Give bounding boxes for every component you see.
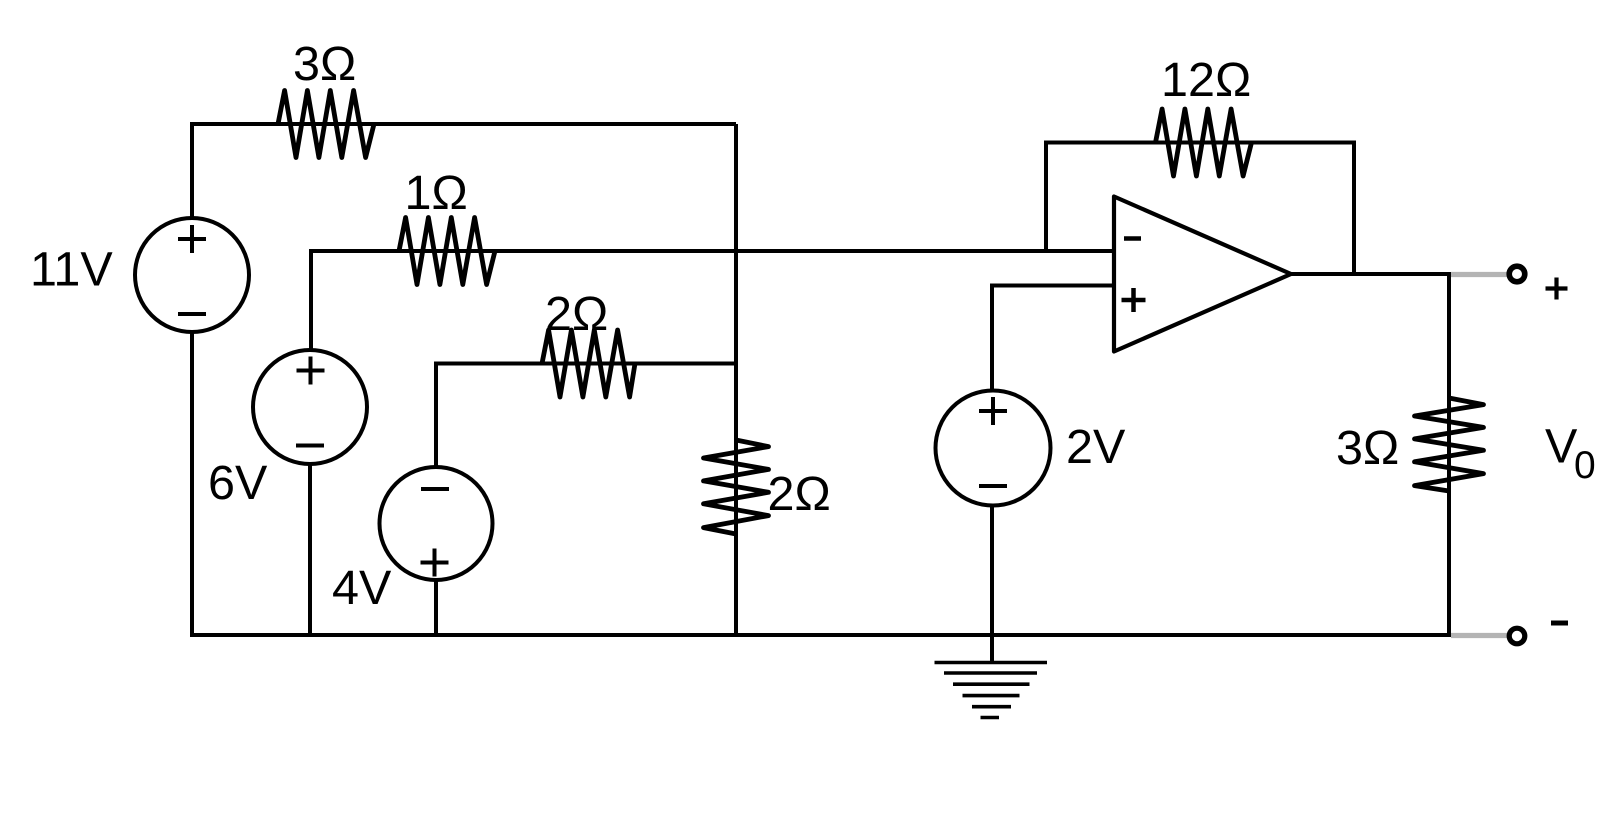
terminal + (open circle) bbox=[1509, 266, 1525, 282]
source V2 6V circle bbox=[253, 350, 367, 464]
V4 minus sign bbox=[979, 484, 1007, 488]
wire: top-left horizontal, 11V top node to vertical at x=736 bbox=[192, 124, 736, 218]
wire: non-inverting input to 2V source bbox=[992, 286, 1114, 392]
label + (output polarity) bbox=[1546, 278, 1568, 300]
wire: 4V bottom to ground rail bbox=[434, 579, 438, 635]
svg-text:3Ω: 3Ω bbox=[1336, 421, 1399, 475]
wire: bottom ground rail bbox=[190, 633, 1451, 637]
V1 minus sign bbox=[178, 312, 206, 316]
svg-text:2Ω: 2Ω bbox=[768, 467, 831, 521]
source V3 4V circle bbox=[380, 467, 493, 580]
svg-text:1Ω: 1Ω bbox=[405, 166, 468, 220]
V2 minus sign bbox=[296, 444, 324, 448]
wire: gray stub to - output terminal bbox=[1451, 633, 1507, 638]
terminal - (open circle) bbox=[1509, 628, 1525, 644]
svg-text:2V: 2V bbox=[1066, 420, 1126, 474]
wire: 11V bottom to ground rail bbox=[190, 332, 194, 635]
op-amp inverting input minus sign bbox=[1124, 236, 1141, 241]
op-amp non-inverting input plus sign bbox=[1122, 288, 1146, 312]
resistor R 2ohm vertical on middle bus bbox=[704, 440, 769, 534]
svg-text:11V: 11V bbox=[30, 243, 113, 297]
svg-text:3Ω: 3Ω bbox=[293, 37, 356, 91]
wire: gray stub to + output terminal bbox=[1451, 272, 1507, 277]
V4 plus sign bbox=[979, 397, 1007, 425]
source V4 2V circle bbox=[936, 391, 1051, 506]
wire: output node down through 3ohm to ground rail bbox=[1447, 274, 1451, 635]
resistor R 1ohm bbox=[399, 218, 495, 285]
resistor R 2ohm (horizontal) bbox=[542, 330, 635, 397]
wire: 6V bottom to ground rail bbox=[308, 464, 312, 635]
wire: 1ohm row, from 6V top node to op-amp inverting input bbox=[311, 251, 1114, 350]
svg-text:0: 0 bbox=[1574, 444, 1596, 487]
ground symbol stem bbox=[990, 635, 994, 662]
wire: middle vertical bus at x=736 bbox=[734, 124, 738, 635]
wire: op-amp feedback loop top bbox=[1046, 143, 1354, 275]
V2 plus sign bbox=[297, 357, 325, 385]
wire: op-amp output to output port bbox=[1291, 272, 1451, 276]
V3 minus sign (top) bbox=[421, 487, 449, 491]
svg-text:4V: 4V bbox=[332, 561, 392, 615]
op-amp U1 triangle bbox=[1114, 197, 1291, 352]
V1 plus sign bbox=[178, 225, 206, 253]
resistor R 3ohm (top left) bbox=[278, 91, 374, 158]
resistor R 12ohm (feedback) bbox=[1156, 109, 1252, 176]
V3 plus sign (bottom) bbox=[421, 549, 449, 577]
svg-text:2Ω: 2Ω bbox=[545, 287, 608, 341]
svg-text:6V: 6V bbox=[208, 456, 268, 510]
label - (output polarity) bbox=[1551, 621, 1568, 626]
source V1 11V circle bbox=[135, 218, 249, 332]
svg-text:12Ω: 12Ω bbox=[1161, 53, 1251, 107]
resistor R 3ohm (load, vertical) bbox=[1415, 398, 1484, 491]
ground symbol bars bbox=[935, 663, 1048, 718]
wire: 2V bottom to ground rail bbox=[990, 506, 994, 635]
wire: 2ohm row, from 4V top node to middle bus bbox=[436, 364, 736, 467]
